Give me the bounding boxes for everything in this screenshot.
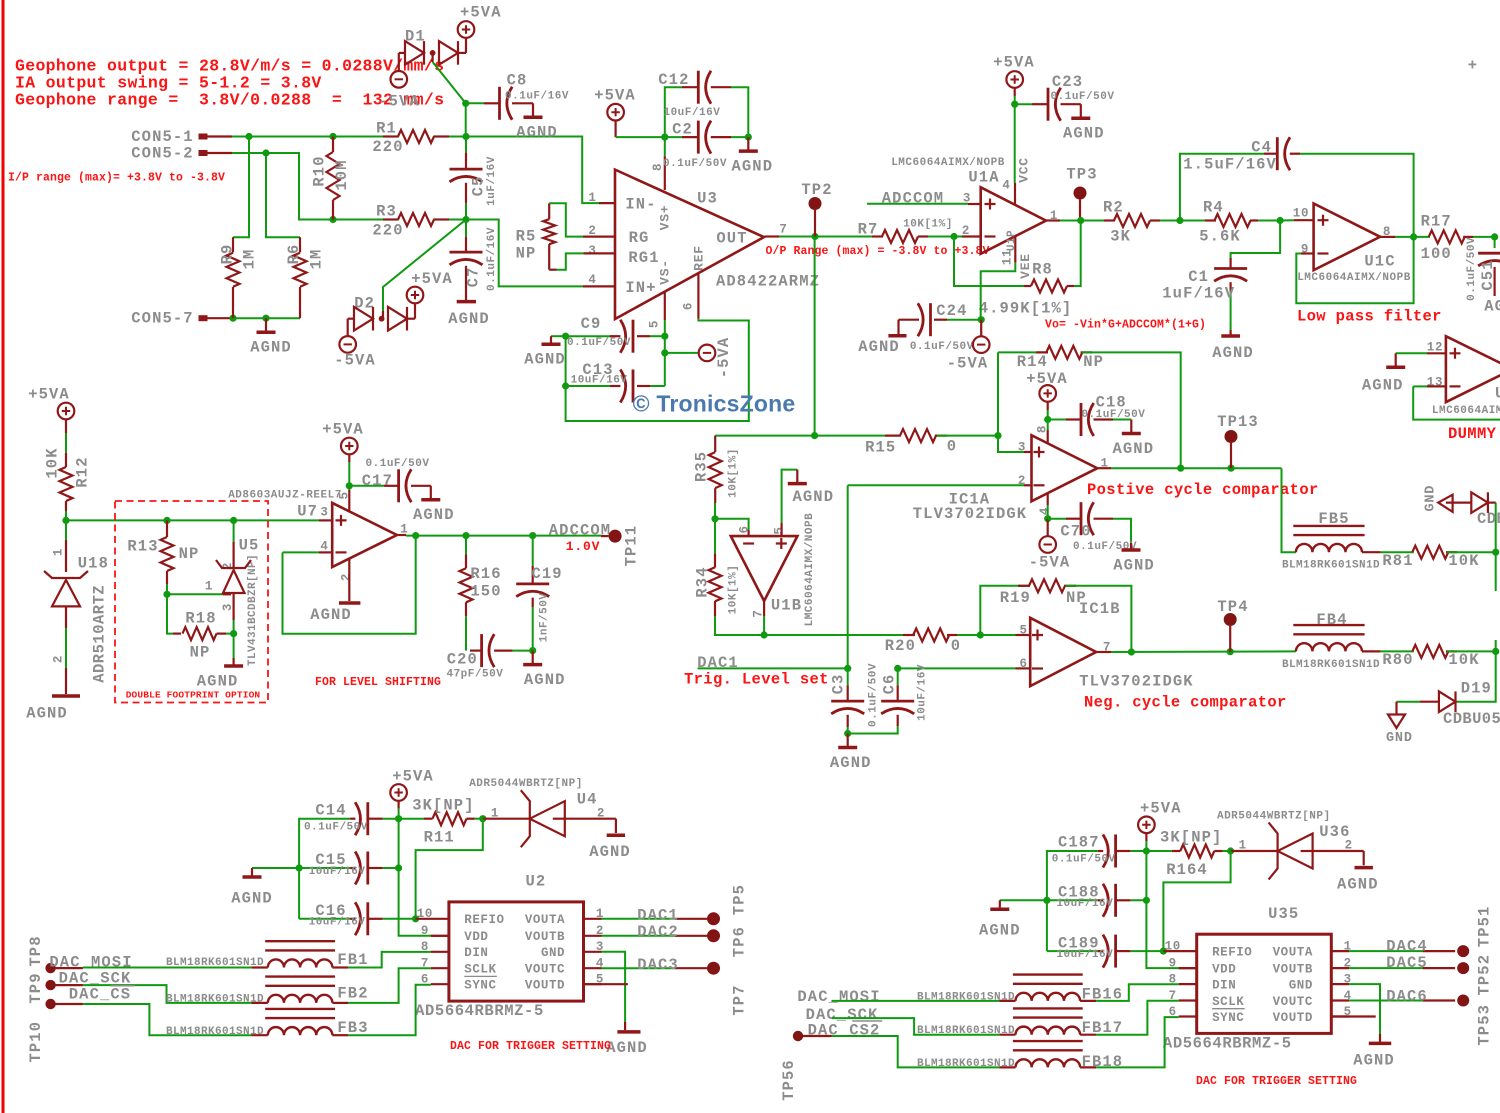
- resistor R34 10K[1%]: [714, 519, 716, 554]
- svg-text:0.1uF/50V: 0.1uF/50V: [1051, 91, 1115, 103]
- resistor R2 3K: [1104, 219, 1115, 221]
- svg-text:VOUTA: VOUTA: [1273, 946, 1313, 960]
- resistor R9 1M: [232, 237, 234, 252]
- svg-text:AGND: AGND: [606, 1039, 648, 1057]
- resistor R14 NP feedback: [998, 351, 1047, 353]
- wire pin5 node to -5VA: [665, 336, 699, 353]
- svg-text:R13: R13: [127, 537, 158, 555]
- svg-text:1M: 1M: [307, 249, 325, 270]
- op-amp U3 AD8422ARMZ: [615, 170, 764, 319]
- svg-text:VOUTC: VOUTC: [1273, 995, 1313, 1009]
- ferrite bead FB1: [265, 940, 335, 942]
- svg-text:O/P Range (max) = -3.8V to +3.: O/P Range (max) = -3.8V to +3.8V: [766, 245, 990, 258]
- power +5VA at R12: [58, 403, 75, 420]
- svg-text:Neg. cycle comparator: Neg. cycle comparator: [1084, 693, 1287, 711]
- capacitor C8 0.1uF/16V: [466, 102, 484, 104]
- svg-text:TLV3702IDGK: TLV3702IDGK: [1079, 673, 1193, 691]
- svg-text:+5VA: +5VA: [28, 385, 70, 403]
- ferrite bead FB18: [1013, 1040, 1083, 1042]
- testpoint TP7: [707, 962, 720, 975]
- wire DAC3 out to TP7: [602, 967, 675, 969]
- svg-text:C187: C187: [1058, 834, 1100, 852]
- wire to U1B pin6: [715, 519, 749, 530]
- svg-text:DAC2: DAC2: [637, 923, 679, 941]
- node TP13 branch: [1177, 465, 1184, 472]
- svg-text:DAC3: DAC3: [637, 956, 679, 974]
- capacitor C19 1nF/50V: [532, 536, 534, 566]
- ground AGND below CON5-7: [265, 318, 267, 332]
- pin U2 left DIN: [431, 951, 449, 953]
- svg-text:VOUTC: VOUTC: [525, 963, 565, 977]
- svg-text:R16: R16: [470, 565, 501, 583]
- node R3/C5/C7: [462, 216, 469, 223]
- resistor R6 1M: [299, 237, 301, 252]
- svg-text:10uF/16V: 10uF/16V: [916, 664, 928, 721]
- svg-text:NP: NP: [190, 643, 211, 661]
- svg-text:AGND: AGND: [250, 339, 292, 357]
- svg-text:TP2: TP2: [801, 181, 832, 199]
- svg-text:0.1uF/50V: 0.1uF/50V: [867, 663, 879, 727]
- op-amp U1A LMC6064: [981, 187, 1046, 254]
- pin U35 right GND: [1331, 983, 1349, 985]
- svg-text:VS+: VS+: [658, 205, 673, 231]
- svg-text:7: 7: [779, 222, 787, 236]
- ground AGND at C17: [430, 486, 432, 500]
- power +5VA at U35: [1138, 817, 1155, 834]
- op-amp IC1B TLV3702: [1030, 618, 1096, 686]
- svg-text:10K: 10K: [1448, 552, 1479, 570]
- svg-text:GND: GND: [1386, 731, 1413, 746]
- wire U7 output: [397, 534, 406, 536]
- ground AGND at C8: [532, 103, 534, 117]
- svg-text:C2: C2: [672, 120, 693, 138]
- node R81 out: [1492, 549, 1499, 556]
- svg-text:10uF/16V: 10uF/16V: [1056, 898, 1113, 910]
- svg-text:CON5-1: CON5-1: [131, 128, 193, 146]
- capacitor C3 0.1uF/50V: [847, 668, 849, 685]
- svg-text:10: 10: [417, 907, 433, 921]
- svg-text:TLV431BCDBZR[NP]: TLV431BCDBZR[NP]: [247, 554, 259, 666]
- capacitor C12 10uF/16V: [665, 87, 682, 137]
- svg-text:R10: R10: [310, 155, 328, 186]
- capacitor C24 0.1uF/50V: [929, 303, 932, 336]
- wire FB18 to U35 SYNC pin6: [1080, 1066, 1096, 1068]
- node C8/+input: [462, 100, 469, 107]
- pin U7-5 wire: [348, 490, 350, 511]
- DAC U2 AD5664 box: [449, 902, 584, 1001]
- svg-text:VCC: VCC: [1017, 157, 1032, 183]
- svg-text:10uF/16V: 10uF/16V: [309, 917, 366, 929]
- svg-text:AGND: AGND: [1484, 297, 1500, 315]
- svg-text:DOUBLE FOOTPRINT OPTION: DOUBLE FOOTPRINT OPTION: [126, 689, 261, 700]
- svg-text:BLM18RK601SN1D: BLM18RK601SN1D: [917, 991, 1015, 1003]
- capacitor C13 10uF/16V: [664, 353, 666, 386]
- ground AGND at U35 pin3: [1369, 1042, 1391, 1046]
- ground AGND at U7 pin2: [339, 601, 360, 605]
- resistor R8 4.99K[1%]: [1024, 285, 1031, 287]
- svg-text:1M: 1M: [240, 249, 258, 270]
- node R11/U4: [479, 815, 486, 822]
- capacitor C51 clipped at edge: [1494, 237, 1496, 248]
- svg-text:VS-: VS-: [658, 259, 673, 285]
- node R16 top: [462, 532, 469, 539]
- svg-text:TP3: TP3: [1066, 165, 1097, 183]
- resistor R35 10K[1%]: [714, 436, 716, 452]
- svg-text:DAC FOR TRIGGER SETTING: DAC FOR TRIGGER SETTING: [450, 1040, 611, 1053]
- wire U1D pin13 feedback: [1413, 385, 1427, 387]
- svg-text:TP52: TP52: [1476, 954, 1494, 996]
- svg-text:C4: C4: [1251, 139, 1272, 157]
- svg-text:GND: GND: [1289, 979, 1313, 993]
- node R80 out: [1492, 648, 1499, 655]
- resistor R10 10M: [332, 137, 334, 153]
- svg-text:R20: R20: [885, 637, 916, 655]
- svg-text:R8: R8: [1032, 261, 1053, 279]
- svg-text:DAC4: DAC4: [1386, 937, 1428, 955]
- node IC1A pin4 / C70: [1044, 515, 1051, 522]
- power -5VA at D1: [398, 53, 400, 71]
- testpoint TP51: [1457, 945, 1469, 957]
- svg-text:R35: R35: [692, 451, 710, 482]
- capacitor C17 0.1uF/50V: [349, 485, 384, 487]
- svg-text:2: 2: [1345, 839, 1353, 853]
- wire ADCCOM rail to U7 pin3: [66, 519, 319, 521]
- svg-text:U1C: U1C: [1364, 252, 1395, 270]
- node C19 top: [529, 532, 536, 539]
- wire U1C pin9 feedback: [1301, 252, 1314, 254]
- frame border left edge: [2, 0, 5, 1113]
- pin U35 left SCLK: [1179, 999, 1197, 1001]
- node CON5-2/R6: [262, 149, 269, 156]
- capacitor C187 0.1uF/50V: [1130, 850, 1146, 852]
- svg-text:VOUTA: VOUTA: [525, 913, 565, 927]
- wire U35 GND pin3 to AGND: [1349, 984, 1380, 1034]
- svg-text:BLM18RK601SN1D: BLM18RK601SN1D: [1282, 560, 1380, 572]
- svg-text:ADCCOM: ADCCOM: [882, 190, 944, 208]
- resistor R11 3K[NP]: [399, 818, 424, 820]
- node R12/U18/ADCCOM rail: [62, 517, 69, 524]
- resistor R19 NP: [980, 586, 1028, 635]
- op-amp U1B buffer: [731, 536, 798, 601]
- svg-text:AGND: AGND: [858, 338, 900, 356]
- testpoint TP8: [45, 963, 55, 973]
- svg-text:CON5-2: CON5-2: [131, 145, 193, 163]
- pin IC1A-8 wire: [1047, 420, 1049, 431]
- svg-text:AGND: AGND: [26, 704, 68, 722]
- ground AGND at C1: [1221, 334, 1240, 338]
- resistor R15 0: [885, 435, 901, 437]
- wire U1B pin5 to AGND: [780, 523, 782, 536]
- svg-text:DAC FOR TRIGGER SETTING: DAC FOR TRIGGER SETTING: [1196, 1075, 1357, 1088]
- svg-text:0.1uF/50V: 0.1uF/50V: [910, 341, 974, 353]
- svg-text:1uF/16V: 1uF/16V: [486, 156, 498, 206]
- wire U7 pin4 feedback loop: [283, 551, 320, 553]
- svg-text:4: 4: [588, 273, 596, 287]
- svg-text:R14: R14: [1017, 353, 1048, 371]
- svg-text:2: 2: [340, 573, 354, 581]
- pin U2-5 stub: [584, 983, 628, 985]
- svg-text:Low pass filter: Low pass filter: [1297, 307, 1442, 325]
- dashed box double footprint option: [115, 501, 268, 703]
- svg-text:TP5: TP5: [730, 884, 748, 915]
- op-amp IC1A TLV3702: [1032, 435, 1098, 501]
- testpoint TP9: [45, 980, 55, 990]
- svg-text:U2: U2: [525, 873, 546, 891]
- node REFIO: [412, 915, 419, 922]
- svg-text:10uF/16V: 10uF/16V: [663, 107, 720, 119]
- ground AGND at U2 pin3: [617, 1030, 640, 1034]
- svg-text:TP11: TP11: [622, 525, 640, 567]
- node C15 left: [296, 864, 303, 871]
- svg-text:LMC6064AIMX/NOPB: LMC6064AIMX/NOPB: [1297, 272, 1411, 284]
- svg-text:GND: GND: [541, 946, 565, 960]
- svg-text:5: 5: [1019, 623, 1027, 637]
- svg-text:NP: NP: [179, 545, 200, 563]
- ground AGND at C19: [532, 651, 534, 665]
- svg-text:NP: NP: [516, 244, 537, 262]
- wire IC1A output: [1097, 467, 1111, 469]
- capacitor C14 0.1uF/50V: [383, 818, 399, 820]
- pin U2 left VDD: [431, 935, 449, 937]
- node R13 top: [163, 517, 170, 524]
- node U1B out: [761, 631, 768, 638]
- svg-text:U1D: U1D: [1495, 384, 1500, 402]
- svg-text:AGND: AGND: [516, 124, 558, 142]
- svg-text:AGND: AGND: [1362, 377, 1404, 395]
- ferrite bead FB5: [1293, 525, 1364, 527]
- svg-text:10uF/16V: 10uF/16V: [309, 866, 366, 878]
- power +5VA at U2: [390, 784, 407, 801]
- node R13/U5 ref: [163, 591, 170, 598]
- node R9 bottom: [229, 315, 236, 322]
- testpoint TP3: [1074, 187, 1087, 200]
- svg-text:AGND: AGND: [1337, 875, 1379, 893]
- svg-text:FB1: FB1: [337, 951, 368, 969]
- ground AGND at C2: [747, 137, 749, 151]
- node R18/U5 anode: [230, 630, 237, 637]
- node R20/R19: [977, 631, 984, 638]
- svg-text:3K[NP]: 3K[NP]: [1160, 829, 1222, 847]
- svg-text:DAC6: DAC6: [1386, 988, 1428, 1006]
- svg-text:TP56: TP56: [780, 1059, 798, 1101]
- svg-text:R5: R5: [516, 227, 537, 245]
- svg-text:10K: 10K: [43, 447, 61, 478]
- pin U35 right VOUTC: [1331, 999, 1349, 1001]
- testpoint TP52: [1457, 962, 1469, 974]
- svg-text:-5VA: -5VA: [334, 351, 376, 369]
- node R4/C1/pin10: [1277, 217, 1284, 224]
- svg-text:R17: R17: [1421, 212, 1452, 230]
- ground AGND at C23: [1080, 104, 1082, 118]
- svg-text:220: 220: [372, 221, 403, 239]
- pin U3-5 wire: [664, 292, 666, 320]
- wire CON5-2 to R3: [232, 153, 333, 220]
- wire R15 line: [715, 435, 899, 437]
- pin U35 left SYNC: [1179, 1015, 1197, 1017]
- wire DAC4 out to TP51: [1349, 950, 1422, 952]
- svg-text:R4: R4: [1203, 198, 1224, 216]
- svg-text:9: 9: [1169, 957, 1177, 971]
- svg-text:GND: GND: [1424, 485, 1439, 512]
- op-amp U1C LMC6064: [1314, 204, 1381, 271]
- svg-text:-5VA: -5VA: [378, 92, 420, 110]
- svg-text:TP4: TP4: [1217, 598, 1248, 616]
- node C C187 junction: [1143, 847, 1150, 854]
- power -5VA at D2: [347, 319, 349, 337]
- capacitor C188 10uF/16V: [1130, 899, 1146, 901]
- svg-text:AGND: AGND: [524, 671, 566, 689]
- svg-text:U18: U18: [78, 555, 109, 573]
- node TP2: [811, 233, 818, 240]
- svg-text:R80: R80: [1382, 651, 1413, 669]
- wire VCC pin: [1014, 104, 1016, 183]
- svg-text:C7: C7: [464, 267, 482, 288]
- ferrite bead FB16: [1013, 973, 1083, 975]
- svg-text:R9: R9: [218, 244, 236, 265]
- svg-text:4: 4: [1002, 178, 1010, 192]
- svg-text:DAC5: DAC5: [1386, 954, 1428, 972]
- testpoint TP11: [601, 535, 609, 537]
- svg-text:R3: R3: [376, 202, 397, 220]
- svg-text:VOUTB: VOUTB: [1273, 963, 1313, 977]
- wire R3 out to C5/C7/pin4: [433, 219, 466, 221]
- svg-text:+5VA: +5VA: [392, 767, 434, 785]
- svg-text:DUMMY: DUMMY: [1448, 425, 1497, 443]
- node -5VA tap: [661, 349, 668, 356]
- node C9 left: [562, 333, 569, 340]
- svg-text:AGND: AGND: [231, 889, 273, 907]
- svg-text:0.1uF/50V: 0.1uF/50V: [1466, 237, 1478, 301]
- ground AGND left of C188: [1000, 899, 1047, 901]
- svg-text:U7: U7: [297, 502, 318, 520]
- svg-text:C12: C12: [658, 71, 689, 89]
- wire to IC1B pin5: [1016, 634, 1031, 636]
- svg-text:SYNC: SYNC: [464, 979, 496, 993]
- svg-text:AGND: AGND: [1112, 440, 1154, 458]
- svg-text:BLM18RK601SN1D: BLM18RK601SN1D: [917, 1058, 1015, 1070]
- svg-text:+5VA: +5VA: [1140, 800, 1182, 818]
- node R164/U36: [1227, 847, 1234, 854]
- pin U35 right VOUTA: [1331, 950, 1349, 952]
- svg-text:R6: R6: [285, 244, 303, 265]
- resistor R3 220: [383, 218, 398, 220]
- svg-text:U1B: U1B: [771, 597, 802, 615]
- ferrite bead FB2: [265, 975, 335, 977]
- ground AGND at U5: [233, 634, 235, 658]
- capacitor C2 0.1uF/50V: [665, 136, 682, 138]
- svg-text:DIN: DIN: [464, 946, 488, 960]
- wire FB3 to U2 SYNC pin6: [332, 1034, 348, 1036]
- svg-text:C6: C6: [880, 674, 898, 695]
- +5VA rail to VDD pin9: [399, 819, 431, 936]
- svg-text:-5VA: -5VA: [1029, 554, 1071, 572]
- svg-text:AGND: AGND: [830, 754, 872, 772]
- svg-text:9: 9: [421, 924, 429, 938]
- svg-text:DAC_MOSI: DAC_MOSI: [797, 988, 880, 1006]
- svg-text:FB2: FB2: [337, 984, 368, 1002]
- capacitor C6 10uF/16V: [897, 668, 899, 685]
- wire IC1B output: [1096, 651, 1111, 653]
- svg-text:REF: REF: [692, 245, 707, 271]
- svg-text:Trig. Level set: Trig. Level set: [684, 670, 829, 688]
- node C19/C20 ground: [529, 647, 536, 654]
- svg-text:R81: R81: [1382, 552, 1413, 570]
- svg-text:CDBU0530: CDBU0530: [1443, 710, 1500, 728]
- node TP4: [1227, 648, 1234, 655]
- svg-text:220: 220: [372, 138, 403, 156]
- pin U35-5 stub: [1331, 1015, 1375, 1017]
- node C3/C6 ground: [844, 730, 851, 737]
- svg-text:SCLK: SCLK: [1212, 995, 1244, 1009]
- wire FB17 to U35 SCLK pin7: [1080, 1034, 1096, 1036]
- resistor R7 10K[1%]: [872, 235, 883, 237]
- wire R81 node vertical: [1495, 503, 1497, 591]
- resistor R1 220: [383, 135, 398, 137]
- node AGND CON5-7: [262, 315, 269, 322]
- svg-text:I/P range (max)= +3.8V to -3.8: I/P range (max)= +3.8V to -3.8V: [8, 172, 225, 185]
- svg-text:TP53: TP53: [1476, 1004, 1494, 1046]
- capacitor C5 1uF/16V: [465, 153, 467, 170]
- svg-text:VEE: VEE: [1018, 253, 1033, 279]
- svg-text:1.0V: 1.0V: [566, 539, 600, 554]
- svg-text:AGND: AGND: [197, 672, 239, 690]
- svg-text:C5: C5: [469, 176, 487, 197]
- svg-text:R1: R1: [376, 119, 397, 137]
- testpoint TP5: [707, 912, 720, 925]
- node U7 pin5 / C17: [346, 482, 353, 489]
- svg-text:AD8603AUJZ-REEL7: AD8603AUJZ-REEL7: [228, 490, 342, 502]
- svg-text:VDD: VDD: [1212, 963, 1236, 977]
- wire DAC_CS to FB3: [55, 1003, 83, 1005]
- capacitor C4 1.5uF/16V feedback: [1180, 154, 1264, 221]
- svg-text:R164: R164: [1166, 861, 1208, 879]
- svg-text:AGND: AGND: [448, 310, 490, 328]
- svg-text:+5VA: +5VA: [1026, 370, 1068, 388]
- svg-text:REFIO: REFIO: [1212, 946, 1252, 960]
- ground GND arrow at D18: [1438, 495, 1452, 512]
- wire node down to R1 node: [465, 103, 467, 136]
- node DAC1/C6: [894, 665, 901, 672]
- node R2/R4/C4: [1176, 217, 1183, 224]
- pin U35 right VOUTB: [1331, 967, 1349, 969]
- wire DAC2 out to TP6: [602, 935, 675, 937]
- capacitor C9 0.1uF/50V: [566, 335, 610, 337]
- svg-text:R18: R18: [185, 609, 216, 627]
- capacitor C15 10uF/16V: [383, 867, 399, 869]
- svg-text:C14: C14: [315, 801, 346, 819]
- svg-text:+: +: [1468, 56, 1478, 74]
- svg-text:R2: R2: [1103, 198, 1124, 216]
- svg-text:0.1uF/50V: 0.1uF/50V: [304, 821, 368, 833]
- svg-text:C24: C24: [936, 302, 967, 320]
- resistor R80 10K: [1362, 650, 1381, 652]
- svg-text:+5VA: +5VA: [322, 420, 364, 438]
- svg-text:3: 3: [320, 505, 328, 519]
- wire FB16 to U35 DIN pin8: [1080, 1000, 1096, 1002]
- pin U35 left VDD: [1179, 967, 1197, 969]
- svg-text:10: 10: [1165, 940, 1181, 954]
- svg-text:-5VA: -5VA: [715, 337, 733, 379]
- wire FB2 to U2 SCLK pin7: [332, 1002, 348, 1004]
- wire FB1 to U2 DIN pin8: [332, 966, 348, 968]
- svg-text:SCLK: SCLK: [464, 963, 496, 977]
- svg-text:CON5-7: CON5-7: [131, 310, 193, 328]
- ferrite bead FB4: [1293, 624, 1364, 626]
- svg-text:FB5: FB5: [1318, 510, 1349, 528]
- wire R5 to RG1 pin3: [557, 253, 584, 269]
- svg-text:0.1uF/50V: 0.1uF/50V: [663, 158, 727, 170]
- node R10 bottom / R3: [329, 216, 336, 223]
